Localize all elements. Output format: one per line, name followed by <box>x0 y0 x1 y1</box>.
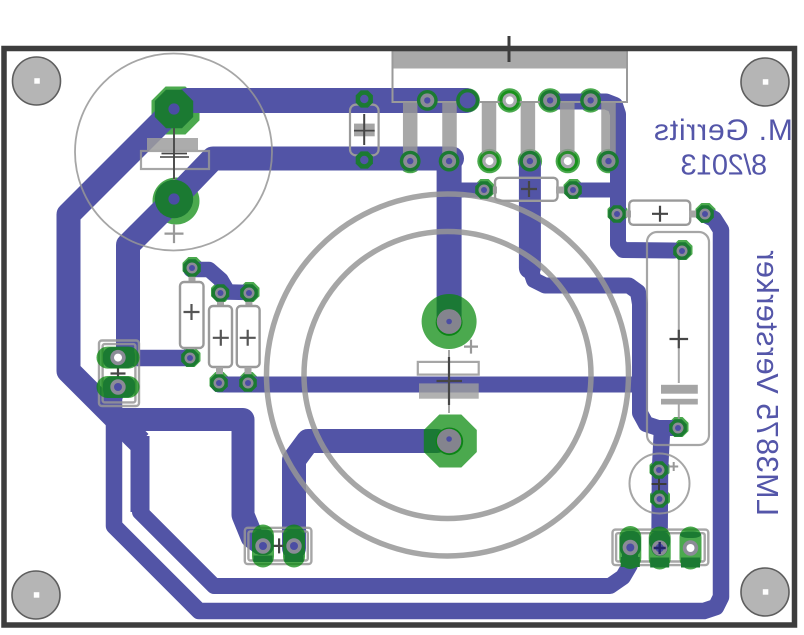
wire stub C3 riser to R4 pad 1 <box>452 183 482 198</box>
pad halo U1 pin row2-2 <box>437 149 461 173</box>
mounting hole top-left <box>13 57 61 105</box>
capacitor C3 center line <box>448 350 450 413</box>
wire feedback bus y=385 R2/R3 pads to C4 branch <box>219 377 633 393</box>
wire R4 pad 2 to feedback node <box>575 183 616 198</box>
capacitor C4 plate 2 <box>661 399 698 405</box>
pad halo U1 pin row2-1 <box>398 149 422 173</box>
pad U1 pin row2-5 (unconnected) <box>558 151 578 171</box>
pad R5 pad 1 <box>608 205 626 223</box>
pad U1 pin row2-6 <box>598 151 619 172</box>
pad halo R4 pad 1 <box>475 179 495 199</box>
pad R3 pad 1 <box>240 284 258 302</box>
op-amp U1 pin lead 6 <box>601 102 616 161</box>
resistor R4 body fill <box>495 178 558 201</box>
pad halo U1 pin row1-3 <box>498 88 522 112</box>
wire net VCC: mid vertical segment x=140 <box>131 436 150 512</box>
resistor R3 origin cross <box>240 330 256 346</box>
wire output pad 2 riser to C3 bottom pad <box>294 441 437 548</box>
capacitor C2 symbol plate <box>147 138 198 150</box>
wire trace B: C2- pad down to input pad 1 <box>128 199 174 352</box>
resistor R1 lead 1 <box>189 273 196 283</box>
capacitor C3 origin cross <box>437 357 463 405</box>
pad U1 pin row2-4 <box>520 151 541 172</box>
capacitor C3 symbol box <box>418 362 479 375</box>
pad C1 pad 1 <box>356 90 373 107</box>
pad halo R1 pad 1 <box>183 257 203 277</box>
pad J2 output pin 1 <box>252 525 274 568</box>
pad halo U1 pin row1-5 <box>578 88 602 112</box>
svg-text:LM3875 Versterker: LM3875 Versterker <box>750 250 784 516</box>
pad U1 pin row1-1 <box>417 90 438 111</box>
wire C4 pad 2 down through C5 to power pad 2 <box>660 430 663 548</box>
wire net GND: input pad 2 down, bottom bus, right riser to R5 pad 2 <box>114 215 721 612</box>
pad halo U1 pin row2-5 <box>556 149 580 173</box>
capacitor C4 center line upper <box>678 245 680 383</box>
pad halo C5 pad 1 <box>650 459 670 479</box>
op-amp U1 pin lead 3 <box>482 102 497 161</box>
wire U1 row2 pad2 down to C3 top pad <box>437 163 462 323</box>
pad U1 pin row1-4 <box>540 90 561 111</box>
pad halo C1 pad 1 <box>355 88 375 108</box>
wire U1 row1 pads 4-5 corner down to R5 pad 1 and C4 pad 1 <box>548 102 674 251</box>
capacitor C2 minus stripe <box>160 156 189 158</box>
wire net VCC: diagonal and bottom bus to power pad 1 <box>140 512 630 586</box>
pad R2 pad 1 <box>212 284 230 302</box>
resistor R3 body fill <box>237 306 260 367</box>
pad C4 pad 2 <box>669 419 687 437</box>
pad halo R1 pad 2 <box>181 347 201 367</box>
pad halo C2 positive <box>152 87 200 135</box>
capacitor C3 outer outline circle <box>267 194 629 556</box>
capacitor C1 plate 1 <box>354 124 375 130</box>
resistor R5 lead 1 <box>619 211 631 218</box>
pad halo C4 pad 1 <box>673 240 693 260</box>
resistor R4 origin cross <box>521 181 537 197</box>
text LM3875 Versterker (mirrored, vertical) <box>750 250 784 516</box>
capacitor C2 polarity mark <box>165 224 184 243</box>
capacitor C1 plate 2 <box>354 131 375 137</box>
pad halo R3 pad 1 <box>240 282 260 302</box>
pad U1 pin row2-2 <box>439 151 460 172</box>
resistor R2 origin cross <box>213 330 229 346</box>
resistor R2 lead 2 <box>216 367 223 376</box>
pad halo U1 pin row2-3 <box>477 149 501 173</box>
pad J3 power pin 1 <box>619 526 641 569</box>
connector J1 origin cross <box>111 366 126 381</box>
capacitor C2 center line <box>173 128 175 192</box>
pad J3 power pin 3 (unconnected) <box>680 527 702 570</box>
wire U1 row2 pad4 down <box>519 163 541 268</box>
pad R3 pad 2 <box>239 374 257 392</box>
pad C3 negative (big octagon) <box>424 415 477 468</box>
connector J2 origin cross <box>272 538 287 553</box>
wire net VCC: C2+ pad to left rail down to lower bend <box>69 109 175 443</box>
pad U1 pin row1-2 <box>456 89 479 112</box>
pad J2 output pin 2 <box>283 525 305 568</box>
pad U1 pin row2-1 <box>400 151 421 172</box>
svg-text:M. Gerrits: M. Gerrits <box>653 114 793 147</box>
pad halo U1 pin row2-6 <box>596 149 620 173</box>
pad R1 pad 1 <box>183 259 201 277</box>
pad C4 pad 1 <box>673 242 691 260</box>
resistor R5 body outline <box>629 201 690 225</box>
op-amp U1 pin lead 4 <box>521 102 536 161</box>
op-amp U1 pin lead 2 <box>442 102 457 161</box>
capacitor C2 symbol box <box>141 151 209 169</box>
op-amp U1 tab cross <box>496 36 522 62</box>
pad R4 pad 2 <box>564 181 582 199</box>
resistor R2 lead 1 <box>217 297 224 307</box>
resistor R3 lead 1 <box>245 297 252 307</box>
pad R4 pad 1 <box>475 181 493 199</box>
pad halo U1 pin row1-1 <box>415 88 439 112</box>
capacitor C3 polarity mark <box>464 340 478 354</box>
pad halo R5 pad 1 <box>608 203 628 223</box>
connector J2 output outline <box>245 528 312 564</box>
mounting hole bottom-right <box>741 568 789 616</box>
resistor R1 lead 2 <box>188 348 195 354</box>
capacitor C4 plate 1 <box>661 385 698 394</box>
capacitor C5 polarity mark <box>669 462 678 471</box>
capacitor C4 origin cross <box>670 330 689 349</box>
text 8/2013 (mirrored) <box>681 150 767 182</box>
capacitor C4 center line lower <box>678 405 680 420</box>
op-amp U1 tab <box>392 51 628 69</box>
resistor R1 body fill <box>180 282 204 348</box>
pad halo C2 negative <box>153 178 200 225</box>
pad halo R5 pad 2 <box>696 203 716 223</box>
pad halo R3 pad 2 <box>239 372 259 392</box>
pad J1 input pin 2 <box>97 376 140 398</box>
pad C5 pad 1 <box>650 461 668 479</box>
svg-text:8/2013: 8/2013 <box>681 150 767 182</box>
resistor R2 body outline <box>209 306 232 367</box>
wire trace1: C2+ pad to U1 row1 pads <box>174 101 466 110</box>
capacitor C2 outline circle <box>75 54 272 251</box>
wire branch to output pad 1 <box>112 420 263 546</box>
op-amp U1 pin lead 5 <box>560 102 575 161</box>
resistor R2 body fill <box>209 306 232 367</box>
resistor R1 origin cross <box>184 304 200 320</box>
resistor R1 body outline <box>180 282 204 348</box>
capacitor C1 origin cross <box>354 114 375 145</box>
connector J3 power outline <box>613 530 709 566</box>
wire row2 pad4 chain to C4 pad 2 <box>530 268 673 428</box>
pad J3 power pin 2 <box>649 527 671 570</box>
pad R1 pad 2 <box>181 349 199 367</box>
capacitor C3 symbol plate <box>419 383 479 398</box>
pad halo C4 pad 2 <box>669 417 689 437</box>
connector J1 input outline <box>99 341 139 407</box>
op-amp U1 package outline <box>393 51 628 103</box>
capacitor C5 outline circle <box>630 454 690 514</box>
pad C2 positive (octagon) <box>155 90 193 128</box>
resistor R5 lead 2 <box>689 211 703 218</box>
text M. Gerrits (mirrored) <box>653 114 793 147</box>
resistor R5 origin cross <box>652 206 668 222</box>
pad halo C1 pad 2 <box>355 149 375 169</box>
resistor R4 body outline <box>495 178 558 201</box>
resistor R4 lead 2 <box>556 187 571 194</box>
pad C2 negative (round) <box>155 180 193 218</box>
pad J1 input pin 1 <box>97 347 140 369</box>
wire input pad 1 to R1 pad 2 <box>118 350 190 367</box>
pad C5 pad 2 <box>651 490 669 508</box>
resistor R5 body fill <box>629 201 690 225</box>
pad halo R4 pad 2 <box>564 179 584 199</box>
pad halo C5 pad 2 <box>650 488 670 508</box>
capacitor C1 body outline <box>350 105 379 156</box>
pad U1 pin row2-3 (unconnected) <box>479 151 499 171</box>
wire trace2: C2- pad to U1 row2 pads <box>174 159 452 200</box>
mounting hole top-right <box>741 58 789 106</box>
pad halo U1 pin row1-2 <box>456 88 480 112</box>
pad R5 pad 2 <box>696 205 714 223</box>
pad halo U1 pin row2-4 <box>518 149 542 173</box>
pad C3 positive (big round) <box>422 294 477 349</box>
pad U1 pin row1-5 <box>580 90 601 111</box>
pad halo R2 pad 2 <box>210 372 230 392</box>
op-amp U1 pin lead 1 <box>403 102 418 161</box>
wire R1 pad 1 to R2/R3 pad 1 link <box>191 270 250 293</box>
mounting hole bottom-left <box>12 571 60 619</box>
capacitor C4 body outline <box>647 232 709 445</box>
resistor R4 lead 1 <box>486 187 497 194</box>
capacitor C2 origin cross <box>162 125 188 179</box>
capacitor C3 inner outline circle <box>304 232 591 519</box>
pad U1 pin row1-3 (unconnected) <box>500 90 520 110</box>
pad C1 pad 2 <box>356 151 373 168</box>
resistor R3 body outline <box>237 306 260 367</box>
pad R2 pad 2 <box>210 374 228 392</box>
capacitor C4 body fill <box>647 232 709 445</box>
capacitor C5 origin cross <box>652 477 667 492</box>
resistor R3 lead 2 <box>245 367 252 376</box>
pad halo R2 pad 1 <box>211 282 231 302</box>
pad halo U1 pin row1-4 <box>538 88 562 112</box>
